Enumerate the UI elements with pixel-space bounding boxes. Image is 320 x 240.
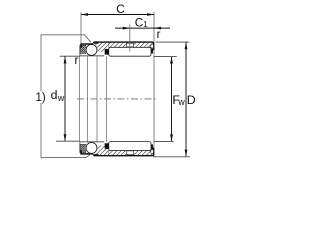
axis centerline (77, 98, 158, 100)
dimension Fw (170, 57, 173, 142)
washer left edge bottom (79, 142, 81, 153)
needle roller top (109, 47, 151, 56)
lubrication hole top (127, 43, 134, 47)
washer left edge top (79, 45, 81, 56)
dimension C (81, 13, 154, 16)
svg-text:d: d (51, 88, 58, 102)
washer crosshatch bottom (80, 144, 86, 152)
extension line D bottom (153, 156, 190, 158)
svg-text:r: r (157, 29, 161, 41)
dimension dw (64, 56, 67, 141)
leader 1) top branch (41, 35, 91, 43)
outer ring ball section top (93, 42, 109, 52)
shaft surface line bottom left (80, 141, 104, 143)
svg-text:C: C (116, 2, 125, 16)
outer ring needle section top (109, 42, 154, 47)
outer ring thick joint bottom (93, 154, 98, 156)
lubrication hole bottom (127, 151, 134, 155)
recess notch right bottom (151, 150, 154, 153)
svg-text:D: D (187, 93, 196, 107)
ring thick top edge (94, 42, 154, 50)
leader 1) bottom branch (41, 154, 91, 158)
svg-text:w: w (57, 93, 65, 103)
end cap top (black) (80, 43, 93, 47)
extension line Fw bottom (154, 140, 174, 142)
wire cylinder line c (96, 56, 98, 142)
wire cylinder line d (105, 56, 107, 142)
ball raceway gap top (85, 44, 97, 56)
wire right face extension full height (153, 12, 155, 158)
extension line Fw top (154, 56, 177, 58)
seal right top (black) (149, 48, 153, 53)
dimension D (185, 42, 188, 156)
svg-text:r: r (75, 55, 79, 67)
leader 1) vertical (40, 35, 42, 158)
shaft surface line top left (80, 55, 104, 57)
svg-text:1): 1) (36, 92, 46, 104)
seal right bottom (black) (149, 144, 153, 149)
wire cylinder line b (87, 56, 89, 142)
ball top (86, 44, 97, 55)
ring thick bottom edge (94, 148, 154, 156)
wire cylinder line a (79, 56, 81, 142)
extension line r/D top (156, 41, 190, 43)
ball raceway gap bottom (85, 142, 97, 154)
end cap bottom (black) (80, 150, 93, 154)
seal left top (black) (105, 49, 109, 55)
extension line dw/r top (60, 55, 80, 57)
outer ring thick joint top (93, 42, 98, 44)
dimension C1 (115, 27, 170, 30)
needle roller bottom (109, 142, 151, 151)
recess notch right top (151, 45, 154, 48)
ball bottom (86, 142, 97, 153)
washer crosshatch top (80, 45, 86, 53)
outer ring ball section bottom (93, 146, 109, 156)
extension line C1 left (129, 25, 131, 52)
svg-text:w: w (177, 97, 185, 107)
extension line dw bottom (56, 140, 80, 142)
seal left bottom (black) (105, 143, 109, 149)
extension line C left (80, 12, 82, 43)
outer ring needle section bottom (109, 151, 154, 156)
